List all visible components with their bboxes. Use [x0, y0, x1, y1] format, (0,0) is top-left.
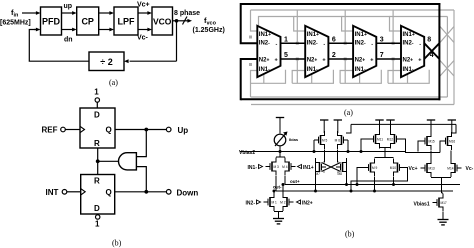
wire M8 drain joins M6: [338, 159, 339, 173]
wire M15 drain down to M13: [430, 151, 432, 160]
vdd bar M5: [320, 120, 328, 133]
svg-text:1: 1: [94, 88, 99, 97]
svg-text:÷ 2: ÷ 2: [100, 57, 112, 67]
svg-text:IN2-: IN2-: [403, 40, 414, 46]
svg-text:M11: M11: [377, 138, 383, 142]
svg-text:-: -: [419, 41, 421, 47]
gray bottom staple stage3: [340, 70, 381, 84]
svg-text:M10: M10: [390, 166, 396, 170]
block CP: [77, 7, 99, 35]
wire M3 drain to out-: [275, 176, 277, 191]
svg-text:IN2-: IN2-: [307, 40, 318, 46]
svg-text:N2+: N2+: [403, 57, 414, 63]
svg-text:out+: out+: [290, 179, 300, 184]
svg-text:N2+: N2+: [259, 57, 270, 63]
wire PFD to CP dn: [62, 28, 77, 32]
svg-text:+: +: [275, 57, 278, 63]
svg-text:M15: M15: [429, 140, 435, 144]
wire M10 gate wire to out- rail: [351, 168, 408, 192]
svg-text:IN1+: IN1+: [303, 165, 314, 171]
wire top interconnect drop right: [452, 124, 457, 133]
wire M10 source to out+ rail: [393, 177, 395, 185]
svg-text:M 9: M 9: [372, 166, 378, 170]
wire stage1 out- to stage2: [281, 42, 306, 44]
svg-text:fvco: fvco: [204, 16, 217, 27]
vdd bar ibias: [276, 118, 284, 134]
diff pair M2: [280, 193, 293, 211]
diff pair M4: [282, 158, 295, 176]
svg-text:[625MHz]: [625MHz]: [0, 20, 31, 27]
cross coupling wires: [322, 163, 341, 172]
gray right vertical outer: [453, 10, 455, 105]
wire CP to LPF top: [99, 11, 114, 15]
svg-text:M14: M14: [447, 167, 453, 171]
wire top interconnect: [351, 123, 456, 125]
wire M7 source to out- rail: [315, 162, 317, 191]
svg-text:CP: CP: [81, 17, 94, 27]
node R junction: [96, 159, 100, 163]
wire divider to PFD feedback: [29, 28, 89, 62]
ground right: [438, 216, 449, 225]
svg-text:Vc+: Vc+: [137, 2, 150, 9]
terminal circle Up: [166, 127, 171, 132]
wire M7 drain joins M5: [324, 159, 325, 173]
wire stage2 out+ to stage3: [328, 58, 353, 60]
wire M1M2 common source to gnd: [274, 212, 283, 215]
flip-flop FF1 box: [80, 108, 115, 148]
svg-text:VCO: VCO: [153, 17, 172, 27]
svg-text:(b): (b): [345, 230, 355, 239]
svg-text:Vbias2: Vbias2: [239, 150, 255, 156]
node Down junction: [144, 190, 148, 194]
delay stage 4: [401, 26, 424, 77]
wire M2 drain to out+ rail: [282, 185, 284, 194]
gray feedforward top rail A: [251, 9, 455, 11]
gray bottom staple stage1: [251, 70, 286, 84]
wire M12 gate right drop: [401, 139, 440, 153]
svg-text:IN2-: IN2-: [355, 40, 366, 46]
delay stage 1: [257, 26, 280, 77]
svg-text:D: D: [94, 204, 100, 213]
svg-text:8: 8: [427, 37, 431, 44]
svg-text:3: 3: [380, 37, 384, 44]
svg-text:(a): (a): [344, 108, 353, 117]
pmos M6: [335, 131, 348, 149]
pmos M11: [369, 130, 383, 148]
label IN1+: [298, 165, 314, 171]
svg-text:IN2-: IN2-: [246, 200, 256, 206]
block divider /2: [89, 52, 124, 71]
gray bottom mid riser stage4: [407, 75, 409, 84]
gray stage3 IN1- feed: [340, 71, 353, 84]
AND gate (pointing left): [119, 153, 137, 170]
wire LPF to VCO Vc-: [138, 28, 152, 32]
wire ibias to tail: [279, 146, 281, 158]
svg-text:Vbias1: Vbias1: [414, 202, 430, 208]
svg-text:M 4: M 4: [282, 165, 288, 169]
current source Ibias: [274, 132, 299, 147]
diff pair M1: [264, 193, 278, 211]
delay stage 2: [305, 26, 328, 77]
wire M3M4 common source: [276, 157, 285, 158]
gray crossover bottom right: [440, 61, 454, 77]
gray junction squares: [249, 36, 395, 67]
svg-text:M12: M12: [387, 138, 393, 142]
pmos M16: [441, 132, 455, 150]
wire VCO output with slash: [173, 17, 193, 25]
wire fin to PFD: [22, 11, 41, 15]
pmos M12: [387, 130, 401, 148]
wire M9M10 drains common up: [375, 156, 394, 159]
gray bottom staple stage4: [388, 70, 429, 84]
svg-text:Down: Down: [177, 188, 199, 197]
gray top staple stage4: [390, 16, 448, 18]
gray bottom tap vertical stage3: [344, 59, 346, 83]
terminal circle bottom 1: [96, 214, 100, 219]
gray crossover top right: [440, 27, 454, 43]
nmos M13: [421, 159, 435, 177]
node vco output junction: [175, 19, 179, 23]
label IN2-: [246, 200, 261, 206]
svg-text:R: R: [94, 177, 100, 186]
svg-text:fin: fin: [11, 8, 19, 19]
nmos M9: [364, 159, 378, 177]
svg-text:6: 6: [332, 37, 336, 44]
cross-coupled pair M7: [316, 158, 327, 176]
wire FF1 Q to Up: [115, 129, 166, 131]
nmos M10: [390, 159, 404, 177]
vdd bar M16: [448, 120, 456, 133]
svg-text:IN1+: IN1+: [307, 32, 319, 38]
svg-text:out-: out-: [273, 185, 282, 190]
nmos M17: [433, 194, 447, 212]
gray bottom mid riser stage1: [263, 75, 265, 84]
svg-text:1: 1: [95, 220, 100, 229]
label IN1-: [248, 165, 263, 171]
wire M9 gate from out+ rail: [357, 168, 364, 185]
gray bottom staple stage2: [292, 70, 333, 84]
wire M8 source to out+ rail: [346, 162, 348, 185]
block LPF: [114, 7, 138, 35]
svg-text:PFD: PFD: [42, 17, 61, 27]
wire M5 drain down: [324, 150, 326, 159]
gray bottom tap vertical stage4: [392, 59, 394, 83]
delay stage 3: [353, 26, 376, 77]
svg-text:D: D: [94, 111, 100, 120]
block PFD: [41, 7, 62, 35]
wire stage1 out+ to stage2: [281, 58, 306, 60]
svg-text:-: -: [371, 41, 373, 47]
svg-text:Q: Q: [106, 188, 112, 197]
gray top staple stage2: [294, 17, 353, 32]
gray top tap vertical stage4: [392, 10, 394, 43]
svg-text:+: +: [322, 57, 325, 63]
svg-text:Q: Q: [106, 126, 112, 135]
gray top staple stage1: [259, 17, 306, 32]
svg-text:Vc-: Vc-: [466, 166, 474, 172]
svg-text:IN1-: IN1-: [403, 67, 414, 73]
svg-text:8 phase: 8 phase: [174, 10, 200, 17]
svg-text:INT: INT: [46, 188, 59, 197]
wire M11 M12 drains join: [380, 148, 391, 158]
wire AND input from Up line: [136, 130, 146, 157]
wire M9 source to out- rail: [374, 177, 376, 191]
svg-text:N2+: N2+: [307, 57, 318, 63]
gray stage2 IN1- feed: [292, 71, 305, 84]
gray feedforward bottom rail D: [251, 104, 454, 106]
outer feedback loop top wire: [241, 3, 441, 5]
terminal circle Down: [166, 190, 171, 195]
wire M13M14 common source: [431, 178, 451, 194]
gray right vertical inner: [446, 17, 448, 98]
wire stage2 out- to stage3: [328, 42, 353, 44]
ground left: [273, 215, 284, 224]
svg-text:N2+: N2+: [355, 57, 366, 63]
svg-text:M 5: M 5: [322, 139, 328, 143]
rail out+: [285, 184, 460, 186]
diff pair M3: [266, 158, 280, 176]
svg-text:+: +: [418, 57, 421, 63]
svg-text:Vc+: Vc+: [409, 166, 418, 172]
gray feedforward bottom rail C: [251, 96, 448, 98]
svg-text:IN1-: IN1-: [307, 67, 318, 73]
rail out-: [276, 190, 453, 192]
svg-text:Up: Up: [178, 126, 189, 135]
vdd bar M12: [386, 120, 394, 133]
svg-text:-: -: [276, 41, 278, 47]
svg-text:IN1-: IN1-: [259, 67, 270, 73]
gray bottom mid riser stage2: [311, 75, 313, 84]
wire AND input from Down line: [136, 167, 146, 192]
pmos M15: [421, 132, 435, 150]
svg-text:M 3: M 3: [274, 165, 280, 169]
wire M4 drain to out+: [284, 176, 286, 185]
wire FF2 Q to Down: [115, 191, 167, 193]
svg-text:-: -: [323, 41, 325, 47]
wire M16 drain down to M14: [450, 151, 452, 160]
svg-text:2: 2: [332, 52, 336, 59]
svg-text:M16: M16: [449, 140, 455, 144]
gray top tap vertical stage2: [296, 10, 298, 43]
node Up junction: [144, 128, 148, 132]
cross-coupled pair M8: [336, 158, 347, 176]
wire stage3 out- to stage4: [376, 42, 401, 44]
wire M1 drain to out- rail: [273, 191, 275, 193]
svg-text:M17: M17: [441, 201, 447, 205]
wire PFD to CP up: [62, 11, 77, 15]
pmos M5: [314, 131, 328, 149]
wire top interconnect drop left: [346, 124, 351, 133]
svg-text:IN2+: IN2+: [302, 200, 313, 206]
label IN2+: [297, 200, 313, 206]
svg-text:(b): (b): [112, 239, 122, 248]
gray stage1 IN1+ feed from left: [251, 10, 258, 31]
wire M15 gate drop to vbias2: [418, 141, 421, 152]
wire feedback right vertical: [176, 21, 178, 61]
svg-text:7: 7: [380, 52, 384, 59]
svg-text:M7: M7: [316, 172, 321, 176]
wire stage3 out+ to stage4: [376, 58, 401, 60]
gray stage1 IN1- feed from left: [251, 71, 258, 98]
wire M6 drain down: [337, 150, 339, 159]
wire feedback into divider: [124, 59, 177, 63]
FF1 clock triangle: [80, 126, 85, 132]
wire LPF to VCO Vc+: [138, 11, 152, 15]
node vbias2-ibias junction: [279, 150, 282, 153]
flip-flop FF2 box: [81, 175, 115, 215]
wire stage4 output crossover: [424, 43, 439, 59]
vdd bar M15: [427, 120, 435, 133]
FF2 clock triangle: [81, 189, 86, 195]
rail Vbias2: [239, 150, 406, 156]
svg-text:M 6: M 6: [335, 139, 341, 143]
svg-text:REF: REF: [42, 126, 58, 135]
svg-text:up: up: [64, 3, 73, 10]
svg-text:dn: dn: [64, 37, 73, 44]
wire AND output to R line: [98, 160, 119, 162]
vdd bar M11: [375, 120, 383, 133]
nmos M14: [447, 159, 461, 177]
gray stage4 IN1- feed: [388, 71, 401, 84]
svg-text:M 1: M 1: [272, 201, 278, 205]
svg-text:+: +: [370, 57, 373, 63]
wire INT to FF2: [67, 191, 81, 193]
svg-text:5: 5: [284, 52, 288, 59]
block VCO: [152, 7, 173, 35]
wire REF to FF1: [65, 129, 80, 131]
svg-text:(1.25GHz): (1.25GHz): [193, 27, 225, 34]
svg-text:IN1+: IN1+: [355, 32, 367, 38]
svg-text:IN1+: IN1+: [259, 32, 271, 38]
outer feedback loop right wire: [438, 3, 440, 100]
gray bottom tap vertical stage2: [296, 59, 298, 83]
gray top tap vertical stage3: [344, 10, 346, 43]
vdd bar M6: [334, 120, 342, 133]
svg-text:(a): (a): [109, 78, 118, 87]
svg-text:M 2: M 2: [280, 201, 286, 205]
svg-text:IN1-: IN1-: [248, 165, 258, 171]
gray top staple stage3: [342, 17, 401, 32]
wire M5M6 gates to vbias2: [314, 140, 348, 152]
terminal circle INT: [62, 190, 67, 195]
svg-text:Vc-: Vc-: [137, 35, 149, 42]
outer loop left bracket to stage1 IN2-: [241, 3, 258, 43]
terminal circle REF: [61, 127, 66, 132]
gray bottom mid riser stage3: [359, 75, 361, 84]
outer loop left bracket to stage1 IN2+: [241, 59, 258, 100]
svg-text:IN1-: IN1-: [355, 67, 366, 73]
wire R vertical between FFs: [97, 148, 99, 175]
svg-text:IN1+: IN1+: [403, 32, 415, 38]
svg-text:1: 1: [284, 37, 288, 44]
svg-text:IN2-: IN2-: [259, 40, 270, 46]
svg-text:Ibias: Ibias: [289, 137, 299, 142]
terminal circle top 1: [95, 98, 99, 108]
svg-text:M13: M13: [429, 167, 435, 171]
wire M16 gate stub: [440, 141, 443, 153]
svg-text:LPF: LPF: [118, 17, 136, 27]
wire M17 source to gnd: [442, 212, 444, 216]
wire CP to LPF bottom: [99, 28, 114, 32]
wire M11 gate left drop to vbias2: [361, 139, 369, 152]
svg-text:R: R: [94, 139, 100, 148]
outer feedback loop bottom wire: [241, 98, 441, 100]
